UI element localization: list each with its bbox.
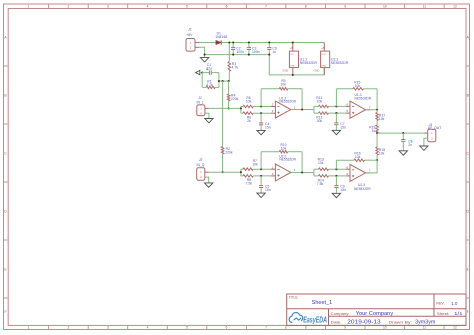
svg-text:3ym3ym: 3ym3ym <box>415 320 435 326</box>
svg-text:GND: GND <box>314 68 320 72</box>
ground at J1 <box>204 55 206 58</box>
svg-text:NE5532DR: NE5532DR <box>355 96 372 100</box>
resistor R12 20k <box>314 112 319 114</box>
svg-text:1N4148: 1N4148 <box>215 35 227 39</box>
wire bias node row <box>219 80 229 82</box>
resistor R13 10k <box>314 168 319 170</box>
capacitor C5 15n <box>260 176 262 186</box>
svg-text:REV:: REV: <box>436 302 444 306</box>
wire U2.2 output <box>291 172 314 174</box>
svg-text:NE5532DR: NE5532DR <box>354 187 371 191</box>
svg-text:NE5532DR: NE5532DR <box>279 157 296 161</box>
capacitor C1 22u <box>202 72 209 74</box>
svg-text:GND: GND <box>290 65 295 67</box>
wire feedback top stage2R <box>336 159 354 161</box>
ground at C5 <box>257 193 265 197</box>
connector J1 +8V <box>186 39 195 52</box>
wire ground bus drop <box>269 55 324 75</box>
svg-text:1: 1 <box>28 4 30 8</box>
wire U1.3 output <box>366 109 378 111</box>
capacitor C2 100n <box>232 43 234 48</box>
power block U1.1 NE5532DR <box>289 51 298 68</box>
wire feedback down stage2L <box>376 89 378 110</box>
svg-text:11: 11 <box>423 4 427 8</box>
wire split node stage2L <box>313 106 315 113</box>
svg-text:8: 8 <box>305 4 307 8</box>
svg-text:8: 8 <box>305 326 307 330</box>
op-amp U2.2 NE5532DR <box>271 168 276 170</box>
svg-text:12: 12 <box>453 326 457 330</box>
capacitor C3 100n <box>248 43 250 48</box>
resistor R8 2k <box>241 112 243 114</box>
svg-text:F: F <box>4 310 6 314</box>
ground at J4 <box>420 146 428 150</box>
capacitor C4 15n <box>260 113 262 123</box>
title block border <box>287 294 466 325</box>
svg-text:10k: 10k <box>379 151 385 155</box>
ground flag left of C1 <box>196 70 200 74</box>
svg-text:15n: 15n <box>340 188 346 192</box>
svg-text:1: 1 <box>28 326 30 330</box>
svg-text:20k: 20k <box>317 119 323 123</box>
resistor R10 10k <box>279 150 287 153</box>
wire J2 pin1 to split <box>205 107 209 109</box>
svg-text:+8: +8 <box>321 46 325 50</box>
capacitor C8 2n <box>402 133 404 139</box>
wire U1.2 output <box>291 109 314 111</box>
svg-text:2k: 2k <box>247 119 251 123</box>
wire feedback top stage1L <box>261 88 279 90</box>
svg-text:NE5532DR: NE5532DR <box>300 61 318 65</box>
ground at C7 <box>332 130 340 134</box>
resistor R7 10k <box>241 168 243 170</box>
svg-text:7.5k: 7.5k <box>246 182 253 186</box>
capacitor C6 1u <box>268 43 270 48</box>
svg-text:7: 7 <box>265 326 267 330</box>
svg-text:10: 10 <box>383 4 387 8</box>
svg-text:220k: 220k <box>231 97 239 101</box>
resistor R16 10k <box>354 159 365 162</box>
svg-text:10k: 10k <box>317 100 323 104</box>
svg-text:2n: 2n <box>408 143 412 147</box>
svg-text:10k: 10k <box>355 155 361 159</box>
wire feedback down stage1L <box>301 89 303 110</box>
wire split node stage2R <box>313 169 315 176</box>
junction at J1 ground <box>204 54 206 56</box>
svg-text:22u: 22u <box>206 66 212 70</box>
capacitor C9 15n <box>335 176 337 186</box>
connector J3 IN_Q <box>197 168 205 180</box>
svg-text:15n: 15n <box>265 126 271 130</box>
wire J4 pin2 to ground <box>424 138 428 146</box>
wire bias drop to R2 <box>222 81 224 146</box>
resistor R5 7.5k <box>241 175 243 177</box>
resistor R19 1k <box>376 125 379 133</box>
svg-text:2019-09-13: 2019-09-13 <box>347 319 381 325</box>
svg-text:5: 5 <box>186 4 188 8</box>
svg-text:10k: 10k <box>281 147 287 151</box>
svg-text:Sheet:: Sheet: <box>437 312 450 316</box>
junction bias left <box>218 80 220 82</box>
wire ground bus under caps <box>205 54 270 56</box>
wire U2.3 output up to R18 <box>376 160 378 173</box>
svg-text:4.7k: 4.7k <box>206 83 213 87</box>
wire feedback up stage1R <box>260 152 262 170</box>
svg-text:F: F <box>467 310 469 314</box>
svg-text:VCC: VCC <box>290 54 295 56</box>
svg-text:2: 2 <box>67 4 69 8</box>
wire J1 pin2 to ground <box>199 47 205 54</box>
EasyEDA logo cloud <box>289 313 303 323</box>
svg-text:10k: 10k <box>246 100 252 104</box>
junction bias mid <box>222 80 224 82</box>
wire feedback top stage1R <box>261 151 279 153</box>
resistor R6 10k <box>241 106 243 108</box>
wire split node stage1R <box>240 169 242 176</box>
svg-text:J1: J1 <box>187 27 192 31</box>
svg-text:1k: 1k <box>372 129 376 133</box>
svg-text:10: 10 <box>383 326 387 330</box>
wire output row <box>377 132 424 134</box>
svg-text:6: 6 <box>226 326 228 330</box>
resistor R2 220k <box>221 147 224 155</box>
svg-text:VCC: VCC <box>321 54 326 56</box>
wire J1 pin1 to D1 <box>199 42 216 44</box>
svg-text:NE5532DR: NE5532DR <box>331 61 349 65</box>
svg-text:7: 7 <box>265 4 267 8</box>
svg-text:12: 12 <box>453 4 457 8</box>
svg-text:7.5k: 7.5k <box>317 182 324 186</box>
capacitor C7 15n <box>335 113 337 123</box>
wire feedback up stage2R <box>335 160 337 169</box>
svg-text:IN_Q: IN_Q <box>197 163 205 167</box>
svg-text:2: 2 <box>67 326 69 330</box>
ground at C8 <box>399 151 407 155</box>
resistor R17 10k <box>376 110 378 113</box>
diode D1 1N4148 <box>216 40 221 44</box>
wire U2.3 output <box>366 172 378 174</box>
svg-text:TITLE:: TITLE: <box>289 296 299 300</box>
connector J4 AF_OUT <box>428 129 436 141</box>
wire feedback up stage1L <box>260 89 262 107</box>
svg-text:10k: 10k <box>252 162 258 166</box>
wire J3 pin2 to ground <box>205 177 209 183</box>
svg-text:J2: J2 <box>197 96 202 100</box>
resistor R1 4.7k <box>201 73 203 88</box>
svg-text:3: 3 <box>107 326 109 330</box>
wire sum node <box>376 133 378 147</box>
svg-text:GND: GND <box>282 68 288 72</box>
svg-text:+8: +8 <box>289 46 293 50</box>
wire feedback up stage2L <box>335 89 337 107</box>
svg-text:9: 9 <box>344 326 346 330</box>
svg-text:IN_L: IN_L <box>197 100 204 104</box>
svg-text:1/1: 1/1 <box>454 311 463 316</box>
svg-text:9: 9 <box>344 4 346 8</box>
svg-text:10k: 10k <box>280 83 286 87</box>
svg-text:Your Company: Your Company <box>356 311 394 317</box>
svg-text:GND: GND <box>321 65 326 67</box>
wire +8 rail <box>221 42 324 44</box>
svg-text:4: 4 <box>147 326 149 330</box>
resistor R9 10k <box>279 87 287 90</box>
svg-text:220k: 220k <box>225 151 233 155</box>
svg-text:10k: 10k <box>379 117 385 121</box>
wire split node stage1L <box>240 107 242 114</box>
power block U2.1 NE5532DR <box>323 43 325 52</box>
wire J3 pin1 to split <box>205 171 209 173</box>
ground at J2 <box>205 119 213 123</box>
svg-text:J3: J3 <box>198 158 203 162</box>
svg-text:4: 4 <box>147 4 149 8</box>
resistor R11 10k <box>314 105 319 107</box>
resistor R3 4.7k <box>228 43 230 62</box>
op-amp U2.3 NE5532DR <box>346 168 350 170</box>
svg-text:11: 11 <box>423 326 427 330</box>
op-amp U1.2 NE5532DR <box>271 106 276 108</box>
svg-text:Date:: Date: <box>331 321 342 325</box>
svg-text:Company:: Company: <box>331 312 350 316</box>
svg-text:4.7k: 4.7k <box>232 65 239 69</box>
svg-text:EasyEDA: EasyEDA <box>303 316 327 325</box>
resistor R15 10k <box>353 88 364 91</box>
svg-text:Drawn By:: Drawn By: <box>389 321 412 325</box>
wire J2 pin2 to ground <box>205 113 209 118</box>
svg-text:15n: 15n <box>340 125 346 129</box>
svg-text:AF_OUT: AF_OUT <box>428 126 441 130</box>
svg-text:5: 5 <box>186 326 188 330</box>
svg-text:100n: 100n <box>252 50 260 54</box>
ground at C9 <box>332 193 340 197</box>
ground at C4 <box>257 130 265 134</box>
junction bias right <box>228 80 230 82</box>
resistor R18 10k <box>376 147 379 155</box>
svg-text:10k: 10k <box>318 161 324 165</box>
svg-text:NE5532DR: NE5532DR <box>279 99 296 103</box>
ground at J3 <box>205 183 213 187</box>
svg-text:1u: 1u <box>272 50 276 54</box>
svg-text:3: 3 <box>107 4 109 8</box>
svg-text:1.0: 1.0 <box>451 301 457 306</box>
wire feedback top stage2L <box>336 88 353 90</box>
resistor R4 220k <box>228 81 230 94</box>
resistor R14 7.5k <box>314 175 319 177</box>
wire feedback down stage1R <box>301 152 303 173</box>
svg-text:15n: 15n <box>265 188 271 192</box>
svg-text:100n: 100n <box>236 50 244 54</box>
svg-text:6: 6 <box>226 4 228 8</box>
svg-text:Sheet_1: Sheet_1 <box>312 300 333 306</box>
op-amp U1.3 NE5532DR <box>346 105 350 107</box>
connector J2 IN_L <box>197 105 205 116</box>
svg-text:+8V: +8V <box>186 33 193 37</box>
svg-text:10k: 10k <box>355 84 361 88</box>
